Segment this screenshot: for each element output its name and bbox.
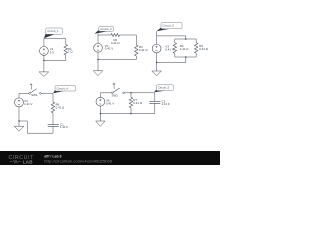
svg-text:0.41 Ω: 0.41 Ω: [111, 41, 120, 45]
svg-text:2.41 Ω: 2.41 Ω: [180, 47, 189, 51]
svg-text:Circuit_5: Circuit_5: [158, 86, 170, 90]
svg-text:Circuit_1: Circuit_1: [47, 29, 59, 33]
svg-text:0.41 Ω: 0.41 Ω: [56, 105, 65, 109]
svg-text:0.41 Ω: 0.41 Ω: [199, 47, 208, 51]
svg-text:SW2: SW2: [112, 93, 119, 97]
svg-text:http://circuitlab.com/c4u2d49d: http://circuitlab.com/c4u2d49d25bb6: [44, 159, 112, 164]
svg-text:LAB: LAB: [23, 160, 34, 165]
svg-text:Circuit_4: Circuit_4: [57, 86, 69, 90]
svg-text:0.41 V: 0.41 V: [106, 101, 114, 105]
svg-text:Circuit_2: Circuit_2: [100, 27, 112, 31]
svg-text:Circuit_3: Circuit_3: [163, 24, 175, 28]
svg-text:0.41 Ω: 0.41 Ω: [139, 48, 148, 52]
svg-text:5 V: 5 V: [50, 50, 54, 54]
svg-text:1.41 F: 1.41 F: [60, 125, 68, 129]
svg-text:1.41 F: 1.41 F: [162, 102, 170, 106]
svg-text:0.41 V: 0.41 V: [105, 47, 113, 51]
svg-text:SW1: SW1: [31, 93, 38, 97]
svg-text:0.41 Ω: 0.41 Ω: [133, 101, 142, 105]
svg-text:1.41 V: 1.41 V: [24, 102, 32, 106]
svg-text:0.41 V: 0.41 V: [165, 47, 173, 51]
